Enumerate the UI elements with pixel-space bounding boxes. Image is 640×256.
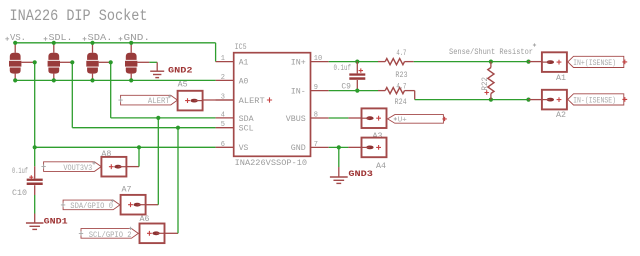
capacitor C10 xyxy=(34,166,36,178)
pin 10 stub xyxy=(311,61,329,63)
ground GND1 xyxy=(34,214,36,224)
svg-text:GND3: GND3 xyxy=(348,169,373,179)
wire SDA net vertical xyxy=(110,62,112,118)
wire A6 to SCL net xyxy=(165,232,179,234)
svg-text:U+: U+ xyxy=(398,117,407,125)
connector A1 box xyxy=(542,52,567,72)
ground GND3 xyxy=(338,167,340,177)
net flag IN+(ISENSE) xyxy=(568,56,624,67)
pin 2 stub xyxy=(216,79,234,81)
svg-text:4.7: 4.7 xyxy=(396,49,406,58)
svg-text:SDA: SDA xyxy=(239,115,254,124)
wire VS net to C10 xyxy=(34,147,36,166)
svg-text:INA226 DIP Socket: INA226 DIP Socket xyxy=(10,7,148,25)
connector A8 box xyxy=(101,157,126,177)
svg-text:VS: VS xyxy=(239,144,249,153)
svg-text:5: 5 xyxy=(221,121,225,129)
pad SDA xyxy=(92,43,94,53)
net flag SDA/GPIO 0 xyxy=(63,200,120,210)
svg-text:Sense/Shunt Resistor: Sense/Shunt Resistor xyxy=(449,48,533,57)
wire GND pad to GND2 xyxy=(149,61,157,63)
svg-text:R23: R23 xyxy=(395,71,407,80)
wire VS net horizontal xyxy=(35,146,216,148)
wire VBUS net xyxy=(329,117,349,119)
pad label GND. xyxy=(119,37,123,41)
svg-text:R24: R24 xyxy=(395,98,407,107)
svg-text:6: 6 xyxy=(221,141,225,149)
connector A4 box xyxy=(362,138,387,158)
pin 5 stub xyxy=(216,127,234,129)
svg-text:A3: A3 xyxy=(373,132,383,141)
svg-text:IN+: IN+ xyxy=(291,59,306,68)
wire VS pad stub xyxy=(21,61,34,63)
connector A2 box xyxy=(542,90,567,110)
capacitor C9 xyxy=(356,62,358,74)
pad SDL xyxy=(53,43,55,53)
svg-text:A8: A8 xyxy=(101,150,111,159)
svg-text:A5: A5 xyxy=(178,81,188,90)
svg-text:7: 7 xyxy=(314,141,318,149)
wire SDL net vertical xyxy=(71,62,73,127)
pad VS xyxy=(14,43,16,53)
svg-text:VBUS: VBUS xyxy=(286,115,306,124)
resistor R22 (shunt) xyxy=(490,62,492,68)
svg-text:IC5: IC5 xyxy=(235,43,247,52)
wire A7 to SDA net xyxy=(146,204,159,206)
svg-text:A2: A2 xyxy=(556,111,566,120)
wire A8 to VS net xyxy=(126,166,139,168)
net flag SCL/GPIO 2 xyxy=(81,229,138,239)
pin 7 stub xyxy=(311,146,329,148)
wire GND net pin7 xyxy=(329,146,349,148)
svg-text:10: 10 xyxy=(314,55,322,63)
net flag ALERT xyxy=(121,95,178,105)
svg-text:ALERT: ALERT xyxy=(148,97,170,106)
pin 4 stub xyxy=(216,117,234,119)
svg-text:2: 2 xyxy=(221,74,225,82)
svg-text:VOUT3V3: VOUT3V3 xyxy=(63,164,92,173)
pad label VS. xyxy=(5,37,9,41)
wire IN- net jog down xyxy=(414,91,416,100)
svg-text:C10: C10 xyxy=(12,189,27,198)
wire A5 to pin 3 xyxy=(203,99,234,101)
pin 9 stub xyxy=(311,90,329,92)
svg-text:ALERT: ALERT xyxy=(239,97,265,106)
wire GND net down xyxy=(338,147,340,167)
svg-text:4.7: 4.7 xyxy=(396,82,406,91)
wire C10 to GND1 xyxy=(34,195,36,214)
pin 8 stub xyxy=(311,117,329,119)
junction dots on top bus xyxy=(13,41,17,45)
svg-text:IN-(ISENSE): IN-(ISENSE) xyxy=(573,97,616,106)
wire bus A0 net xyxy=(15,79,215,81)
wire IN+ net R23 to A1 xyxy=(414,61,529,63)
svg-text:IN+(ISENSE): IN+(ISENSE) xyxy=(573,59,616,68)
net flag IN-(ISENSE) xyxy=(568,94,624,105)
wire VS net vertical xyxy=(34,62,36,147)
svg-text:4: 4 xyxy=(221,111,225,119)
wire SDA pad stub xyxy=(99,61,111,63)
svg-text:A1: A1 xyxy=(239,59,249,68)
svg-text:0.1uf: 0.1uf xyxy=(12,167,28,176)
wire SDA net horizontal xyxy=(111,117,216,119)
svg-text:1: 1 xyxy=(221,55,225,63)
pin 1 stub xyxy=(216,61,234,63)
svg-text:R22: R22 xyxy=(481,77,490,91)
ground GND2 xyxy=(156,62,158,71)
svg-text:INA226VSSOP-10: INA226VSSOP-10 xyxy=(235,158,308,168)
wire IN- net pin9 to R24 xyxy=(329,90,378,92)
wire IN- net to A2 xyxy=(415,99,529,101)
resistor R24 xyxy=(378,90,385,92)
wire GND pad stub xyxy=(137,61,149,63)
svg-text:GND2: GND2 xyxy=(168,65,193,75)
junction dots on bottom bus xyxy=(13,78,17,82)
op-amp IC5 INA226 body xyxy=(234,53,311,157)
svg-text:A0: A0 xyxy=(239,77,249,86)
svg-text:SCL/GPIO 2: SCL/GPIO 2 xyxy=(89,231,132,240)
svg-text:VS.: VS. xyxy=(10,33,26,43)
pad label SDL. xyxy=(44,37,48,41)
svg-text:A4: A4 xyxy=(376,162,386,171)
wire SDL pad stub xyxy=(60,61,72,63)
svg-text:IN-: IN- xyxy=(291,88,306,97)
svg-text:9: 9 xyxy=(314,84,318,92)
wire SCL net horizontal xyxy=(72,127,215,129)
svg-text:SDA/GPIO 0: SDA/GPIO 0 xyxy=(70,202,113,211)
pin 6 stub xyxy=(216,146,234,148)
wire IN+ net pin10 to R23 xyxy=(329,61,378,63)
svg-text:A7: A7 xyxy=(122,186,132,195)
svg-text:0.1uf: 0.1uf xyxy=(334,64,352,73)
connector A6 box xyxy=(140,224,165,244)
resistor R23 xyxy=(378,61,385,63)
connector A5 box xyxy=(178,91,203,111)
connector A3 box xyxy=(362,108,387,128)
svg-text:GND1: GND1 xyxy=(44,216,68,226)
net flag VOUT3V3 xyxy=(44,162,102,172)
svg-text:GND: GND xyxy=(291,144,306,153)
net flag U+ xyxy=(388,115,444,124)
connector A7 box xyxy=(121,195,146,215)
svg-text:SCL: SCL xyxy=(239,125,254,134)
svg-text:A6: A6 xyxy=(140,215,150,224)
svg-text:GND.: GND. xyxy=(124,33,151,43)
pad label SDA. xyxy=(83,37,87,41)
svg-text:8: 8 xyxy=(314,112,318,120)
wire bus A1 net top xyxy=(15,42,215,44)
pad GND xyxy=(130,43,132,53)
svg-text:A1: A1 xyxy=(556,74,566,83)
pin 3 stub xyxy=(216,99,234,101)
